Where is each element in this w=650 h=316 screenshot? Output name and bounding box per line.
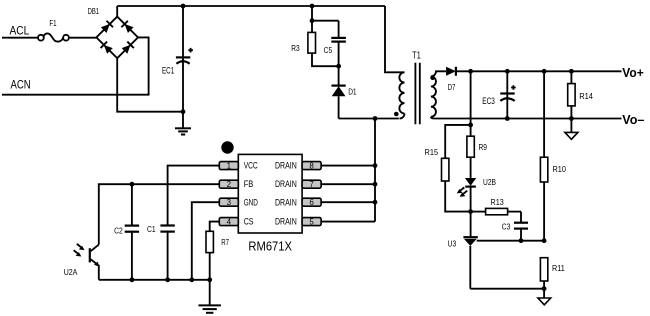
junction Vo- at EC3 — [505, 116, 510, 121]
svg-text:T1: T1 — [412, 51, 421, 62]
IC U1 RM671X body — [238, 154, 302, 233]
label DB1 — [88, 6, 100, 16]
svg-text:D7: D7 — [448, 82, 456, 92]
wire R3/C5 branch from rail — [312, 6, 339, 21]
svg-text:R15: R15 — [425, 147, 439, 157]
junction R3 top — [310, 18, 315, 23]
junction R11 bottom — [542, 286, 547, 291]
svg-text:R11: R11 — [552, 263, 565, 273]
wire GND pin down — [192, 202, 220, 280]
wire U3 anode to ground — [470, 288, 544, 290]
junction snubber bottom — [336, 64, 341, 69]
svg-text:GND: GND — [244, 197, 259, 207]
label C5 — [324, 45, 333, 55]
node Vo- — [622, 112, 644, 127]
svg-text:C1: C1 — [147, 224, 156, 234]
junction rail at C1 — [165, 277, 170, 282]
wire pin6 to drain bus — [321, 201, 375, 203]
label R9 — [479, 142, 488, 152]
label D1 — [348, 86, 357, 96]
node Vo+ — [622, 65, 644, 80]
svg-text:U3: U3 — [448, 238, 457, 248]
wire ACN to bridge right — [2, 37, 149, 94]
ground secondary (triangle) — [565, 119, 578, 140]
ground (IC common) — [199, 280, 221, 313]
junction drain bus pin6 — [373, 200, 378, 205]
node ACN — [11, 80, 31, 92]
wire drain bus vertical — [374, 119, 376, 222]
resistor R13 — [471, 208, 521, 214]
label U3 — [448, 238, 457, 248]
junction Vo+ at R10 — [542, 69, 547, 74]
fuse F1 — [38, 33, 69, 41]
resistor R10 — [540, 71, 547, 240]
capacitor EC3 — [500, 71, 515, 118]
svg-text:Vo–: Vo– — [622, 112, 644, 127]
secondary polarity dot — [430, 76, 435, 81]
capacitor EC1 — [176, 6, 193, 112]
capacitor C5 — [331, 21, 346, 66]
label R3 — [291, 43, 300, 53]
junction top rail at R3 — [310, 4, 315, 9]
bridge rectifier DB1 — [96, 17, 138, 59]
label C2 — [114, 225, 123, 235]
junction Vo+ at R14 — [569, 69, 574, 74]
svg-text:5: 5 — [309, 217, 314, 226]
svg-text:R13: R13 — [491, 197, 504, 207]
svg-text:R7: R7 — [221, 237, 229, 247]
capacitor C1 — [160, 226, 174, 280]
label R15 — [425, 147, 439, 157]
junction drain bus pin7 — [373, 182, 378, 187]
wire pin5 to drain bus — [321, 221, 375, 223]
svg-text:C5: C5 — [324, 45, 333, 55]
svg-text:1: 1 — [227, 161, 232, 170]
junction Vo- at R14 — [569, 116, 574, 121]
label R14 — [579, 91, 593, 101]
svg-text:DRAIN: DRAIN — [275, 216, 297, 226]
optocoupler LED U2B — [457, 178, 477, 212]
label C3 — [502, 221, 511, 231]
svg-text:R14: R14 — [579, 91, 593, 101]
junction R15/R9 split — [468, 123, 473, 128]
svg-text:F1: F1 — [49, 19, 57, 28]
pin 7 DRAIN — [302, 180, 321, 189]
label R13 — [491, 197, 504, 207]
svg-text:C3: C3 — [502, 221, 511, 231]
wire pin7 to drain bus — [321, 183, 375, 185]
svg-text:R9: R9 — [479, 142, 488, 152]
pin 5 DRAIN — [302, 217, 321, 226]
label C1 — [147, 224, 156, 234]
wire bridge bottom to EC1 minus — [117, 58, 183, 111]
svg-text:2: 2 — [227, 180, 232, 189]
label R7 — [221, 237, 229, 247]
svg-text:D1: D1 — [348, 86, 357, 96]
resistor R11 — [540, 258, 547, 289]
wire drain node horizontal — [339, 118, 399, 120]
svg-text:RM671X: RM671X — [248, 239, 292, 253]
transformer T1 primary — [385, 6, 405, 119]
junction rail at GND wire — [189, 277, 194, 282]
junction ref node — [542, 238, 547, 243]
junction drain node — [373, 116, 378, 121]
ground secondary lower (triangle) — [538, 289, 551, 305]
label EC3 — [482, 96, 495, 106]
resistor R7 — [206, 231, 213, 279]
svg-text:3: 3 — [227, 198, 232, 207]
junction drain bus pin8 — [373, 163, 378, 168]
junction rail at C2 — [130, 277, 135, 282]
svg-text:4: 4 — [227, 217, 232, 226]
wire top DC rail — [117, 5, 385, 7]
label D7 — [448, 82, 456, 92]
pin 2 FB — [219, 180, 238, 189]
svg-text:R3: R3 — [291, 43, 300, 53]
wire VCC pin to C1 — [168, 166, 220, 226]
pin name DRAIN 6 — [275, 197, 297, 207]
svg-text:CS: CS — [244, 216, 254, 226]
pin name VCC — [244, 160, 258, 170]
label R11 — [552, 263, 565, 273]
pin 3 GND — [219, 198, 238, 207]
svg-text:U2B: U2B — [483, 177, 496, 187]
svg-text:ACL: ACL — [10, 25, 30, 37]
junction Vo+ at EC3 — [505, 69, 510, 74]
svg-text:DRAIN: DRAIN — [275, 197, 297, 207]
label U2B — [483, 177, 496, 187]
shunt regulator U3 — [463, 212, 544, 289]
capacitor C2 — [125, 184, 139, 280]
junction feedback node — [468, 209, 473, 214]
svg-text:DRAIN: DRAIN — [275, 179, 297, 189]
svg-text:8: 8 — [309, 161, 314, 170]
junction Vo+ at D7 branch — [468, 69, 473, 74]
label RM671X — [248, 239, 292, 253]
wire Vo+ rail — [456, 70, 622, 72]
resistor R9 — [467, 125, 474, 178]
label EC1 — [162, 65, 174, 75]
resistor R3 — [308, 21, 339, 66]
svg-text:VCC: VCC — [244, 160, 258, 170]
label U2A — [64, 267, 78, 277]
svg-text:R10: R10 — [553, 164, 567, 174]
svg-text:EC3: EC3 — [482, 96, 495, 106]
junction EC1 bottom — [181, 109, 186, 114]
pin name CS — [244, 216, 254, 226]
diode D7 — [446, 67, 456, 76]
svg-text:6: 6 — [309, 198, 314, 207]
svg-text:U2A: U2A — [64, 267, 78, 277]
wire Vo- rail — [434, 118, 622, 120]
wire pin8 to drain bus — [321, 165, 375, 167]
wire bridge top to rail — [116, 6, 118, 17]
junction C3 bottom — [519, 238, 524, 243]
label R10 — [553, 164, 567, 174]
primary polarity dot — [394, 112, 399, 117]
label T1 — [412, 51, 421, 62]
diode D1 — [332, 66, 346, 118]
svg-text:EC1: EC1 — [162, 65, 174, 75]
pin 4 CS — [219, 217, 238, 226]
junction rail at R7 — [207, 277, 212, 282]
svg-text:ACN: ACN — [11, 80, 31, 92]
svg-text:C2: C2 — [114, 225, 123, 235]
wire D7 output down branch — [470, 71, 472, 125]
pin name DRAIN 5 — [275, 216, 297, 226]
junction FB at C2 — [130, 182, 135, 187]
wire CS pin to R7 — [210, 222, 220, 232]
pin name FB — [244, 179, 254, 189]
node ACL — [10, 25, 30, 37]
pin name DRAIN 8 — [275, 160, 297, 170]
wire ACL to fuse — [2, 37, 38, 39]
transformer T1 secondary — [431, 71, 446, 118]
svg-text:DB1: DB1 — [88, 6, 100, 16]
pin1 marker dot — [221, 141, 233, 153]
pin 8 DRAIN — [302, 161, 321, 170]
pin name GND — [244, 197, 259, 207]
svg-text:DRAIN: DRAIN — [275, 160, 297, 170]
wire primary-side common rail — [99, 279, 210, 281]
svg-text:FB: FB — [244, 179, 254, 189]
wire to R15 — [445, 125, 470, 158]
optocoupler transistor U2A — [74, 244, 99, 280]
junction top rail at EC1 — [181, 4, 186, 9]
pin 6 DRAIN — [302, 198, 321, 207]
label F1 — [49, 19, 57, 28]
svg-text:7: 7 — [309, 180, 314, 189]
resistor R15 — [442, 158, 471, 211]
svg-text:Vo+: Vo+ — [622, 65, 644, 80]
transformer core — [415, 63, 419, 125]
pin name DRAIN 7 — [275, 179, 297, 189]
capacitor C3 — [514, 212, 528, 241]
ground (primary bulk) — [175, 112, 191, 135]
wire fuse to bridge — [69, 37, 97, 39]
wire FB pin to opto — [99, 184, 220, 244]
resistor R14 — [568, 71, 575, 118]
pin 1 VCC — [219, 161, 238, 170]
